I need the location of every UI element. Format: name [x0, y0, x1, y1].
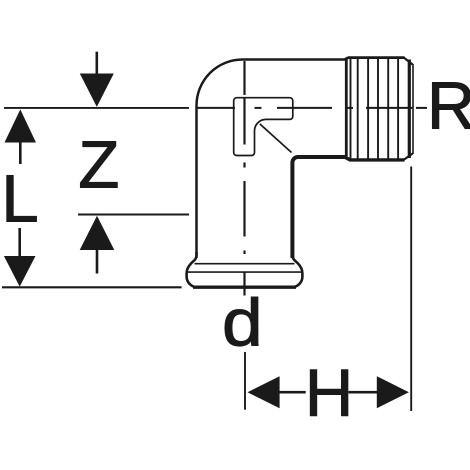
arrow up (L top, below datum) — [5, 109, 37, 164]
internal wall section (flag detail) — [234, 98, 293, 156]
H extension line left (press axis) — [244, 352, 246, 410]
svg-text:d: d — [222, 286, 263, 361]
thread crest lines — [351, 59, 399, 159]
reference line L bottom — [2, 286, 182, 288]
elbow body outline: left wall + outer arc + top line — [197, 60, 346, 259]
svg-text:R: R — [427, 69, 470, 144]
bead tangent line — [188, 271, 301, 273]
horizontal centre line (dash-dot through thread axis) — [198, 107, 428, 109]
svg-text:H: H — [305, 356, 353, 431]
press end: flare walls + collar bead — [187, 252, 303, 287]
elbow body outline: outlet bottom + inner corner + right wall (bold) — [292, 157, 345, 258]
reference line top (Z/L upper datum) — [4, 107, 189, 109]
vertical centre line (dash-dot through press axis) — [243, 61, 245, 296]
H dimension arrows — [248, 376, 409, 408]
H extension line right (thread end) — [410, 167, 412, 412]
section diagonal — [260, 124, 292, 153]
arrow down (L bottom) — [4, 228, 36, 287]
thread block (male thread) — [345, 58, 413, 160]
arrow down (Z top, above datum) — [80, 52, 114, 107]
bead fold line — [195, 263, 295, 265]
reference line Z bottom — [78, 214, 189, 216]
svg-text:L: L — [1, 162, 38, 237]
arrow up (Z bottom) — [80, 216, 115, 274]
step body bottom to thread bottom — [345, 157, 350, 160]
svg-text:Z: Z — [78, 128, 119, 203]
bead mouth bottom (bold) — [193, 286, 296, 289]
